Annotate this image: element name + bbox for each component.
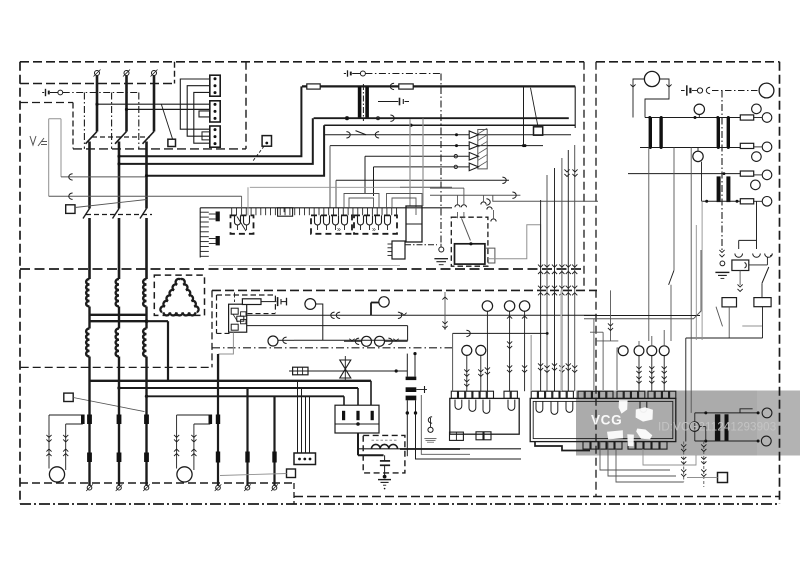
node circle at G1: [58, 90, 63, 95]
ground lead with node x441: [439, 244, 444, 252]
wire R8 down: [762, 307, 764, 338]
terminal block XT1: [210, 75, 220, 96]
inner dashed box of regulator: [217, 295, 276, 333]
crossing mark riser 3 at bus-section: [552, 286, 557, 296]
secondary outgoing terminal 2: [244, 484, 251, 491]
transformer T1 secondary winding L3: [143, 329, 146, 357]
control riser wire 1: [540, 200, 542, 391]
meter circle P2: [759, 83, 774, 98]
contact K1c: [491, 210, 496, 222]
comb connector X2: [388, 241, 406, 259]
incoming terminal L1: [94, 70, 101, 77]
motor branch M7 tap wire upper: [177, 414, 209, 416]
diode output wire: [487, 144, 525, 147]
contactor bank KM3 contacts: [354, 215, 397, 233]
capacitor stack C5: [406, 352, 427, 415]
secondary outgoing terminal 3: [271, 484, 278, 491]
long wire x702: [701, 201, 703, 340]
capacitor stack C5 lower leads: [407, 413, 521, 459]
panel wire row 3: [365, 155, 469, 158]
PLC box A2 body: [450, 398, 519, 434]
control row 2 of AVR: [247, 325, 408, 327]
signal tag box S5: [534, 127, 543, 135]
circuit breaker QF3 blade: [143, 132, 155, 144]
bus A drop to filter: [370, 381, 372, 405]
outer frame right border: [779, 62, 781, 504]
disconnector arrows x704: [701, 441, 706, 487]
PLC box A2 bottom pins: [450, 432, 492, 441]
motor branch M6 drop wire 1: [46, 415, 51, 461]
watermark gray band: [576, 391, 800, 456]
motor branch M6 tap wire upper: [49, 414, 81, 416]
contact at M3: [278, 337, 294, 343]
corner of feeder going down: [574, 86, 576, 128]
outgoing terminal 1: [86, 484, 93, 491]
dashed shelf line of control section: [21, 366, 212, 368]
dashed bottom of breaker compartment: [73, 148, 246, 150]
CT row 3 wire: [628, 172, 740, 175]
gray wire from S7: [220, 474, 287, 476]
diode D1: [469, 131, 478, 139]
T6 center tap: [699, 427, 705, 441]
crossing mark riser 2 at section line: [544, 265, 549, 274]
diode D2: [469, 142, 478, 150]
PLC box A3 bottom pins: [583, 442, 667, 450]
signal link wire from S3: [75, 200, 147, 208]
row into A2 contact: [453, 330, 549, 336]
LV feeder 1 lower: [88, 381, 90, 485]
aux box B9: [722, 298, 737, 307]
resistor R7: [740, 199, 753, 204]
terminal block XT2: [210, 101, 220, 122]
control riser wire 5: [567, 150, 569, 391]
wire to S8: [687, 477, 718, 479]
wire from P8 down: [701, 162, 703, 202]
transformer T2 core dash-dot: [362, 84, 364, 121]
arrow pair on riser 3: [552, 363, 557, 370]
feeder conductor L3 mid: [145, 142, 148, 209]
contacts around M4 M5: [344, 338, 408, 344]
interface box X1: [406, 206, 422, 242]
fuse bar on feeder 1: [87, 453, 92, 463]
crossing mark riser 6 at bus-section: [572, 286, 577, 296]
CT row 1 wire: [645, 116, 740, 119]
node circle on bottom lead: [345, 117, 348, 120]
arrow pair on riser 2: [544, 365, 549, 372]
surge arrester F1 bowtie: [340, 356, 351, 382]
gray riser wide b: [560, 290, 562, 391]
dashed separator of incomer box: [20, 62, 175, 84]
T6 disconnect hook: [740, 409, 753, 413]
aux box on bus: [278, 208, 293, 216]
regulator feed capacitor C3: [261, 297, 287, 306]
reactor core dashes: [372, 439, 398, 441]
instrument M5: [375, 336, 385, 346]
contact mark on feeder: [390, 83, 394, 89]
gray feeder bus y187: [250, 186, 400, 188]
contactor bank KM2 contacts: [311, 215, 352, 233]
signal box S8: [718, 473, 728, 483]
outer frame bottom dash-dot border: [20, 503, 780, 505]
panel wire row 6: [400, 186, 452, 188]
arrow pair on riser 4: [559, 365, 564, 372]
feeder conductor L2 to star point: [118, 307, 120, 315]
distribution loop wire W3: [145, 125, 324, 177]
secondary conductor L1: [88, 357, 90, 382]
relay K1 coil box: [455, 242, 485, 264]
feeder conductor L2 mid: [118, 142, 121, 209]
ground symbol right axis: [715, 272, 729, 278]
meter circle P13: [761, 436, 771, 446]
filter reactor L1: [372, 444, 398, 448]
gray output of A1: [219, 332, 234, 381]
motor branch M7 drop wire 2: [191, 424, 196, 463]
incoming terminal L3: [151, 70, 158, 77]
dashed step joining bottom borders: [293, 483, 295, 504]
circuit breaker QF2 blade: [115, 132, 127, 144]
battery symbol G2: [681, 85, 690, 95]
signal box S6: [64, 393, 73, 401]
long wire x648: [648, 148, 650, 342]
dashed left edge of control section: [211, 290, 213, 367]
panel wire row 2: [330, 144, 543, 208]
transformer T1 primary winding L3: [143, 279, 146, 307]
dash-dot lower rail of control section: [212, 347, 452, 349]
delta feeder tap wire: [147, 321, 169, 381]
meter circle P4: [752, 104, 762, 114]
ground symbol under x441: [434, 259, 448, 265]
inner dashed bottom line: [294, 496, 780, 498]
harmonic filter box with bars: [335, 405, 379, 433]
row wire y341: [596, 340, 618, 342]
relay K1 switch blade: [458, 212, 471, 240]
feeder arch to KM3: [387, 194, 423, 216]
connector contact bar B2: [216, 236, 220, 245]
contactor bank KM1 contacts: [231, 215, 254, 233]
meter circle P9: [754, 170, 772, 180]
outer case of A2: [421, 395, 470, 454]
meter circle P7: [752, 152, 762, 162]
terminal wiring loop C: [194, 92, 210, 143]
feeders into M14-16: [639, 330, 664, 346]
remote signal box S3: [66, 205, 75, 214]
contact pair K1b: [481, 195, 492, 209]
control panel upper rail: [324, 124, 575, 127]
meter circle P12: [762, 408, 772, 418]
wire K2 to blade: [749, 257, 768, 265]
connector bar links: [209, 214, 216, 244]
PLC box A2 top pins: [451, 391, 517, 398]
arrow pair on riser 5: [566, 363, 571, 370]
feeder conductor L2 lower: [118, 218, 121, 279]
motor branch M7 contact bar: [209, 415, 213, 425]
filter capacitor C4: [380, 455, 390, 475]
outer dash-dot frame left border: [19, 62, 21, 504]
vertical sense wire x523: [523, 86, 525, 145]
meter circle P6: [754, 142, 772, 152]
resistor R5: [740, 143, 753, 148]
dash-dot vertical fence 2 of breaker bay: [111, 93, 113, 149]
long wire x672 with blade: [669, 148, 674, 342]
transformer T2 primary bar: [358, 86, 362, 118]
relay K1 output loop: [485, 248, 495, 263]
terminal feeder wire 1: [199, 111, 210, 117]
stepped wire under A3: [535, 442, 590, 451]
control riser wire 3: [554, 168, 556, 391]
disconnect switch QS3 blade: [140, 209, 147, 219]
arrow pair on riser 1: [538, 363, 543, 370]
regulator element box A1: [229, 304, 247, 332]
wire B9 down: [728, 307, 730, 338]
dash-dot measuring axis x441: [440, 74, 442, 244]
instrument M15: [647, 346, 657, 356]
dashed interlock link of breakers: [86, 214, 152, 216]
head bar of T1 secondary: [89, 320, 148, 322]
P1 right lead: [645, 79, 672, 118]
crossing mark riser 2 at bus-section: [544, 286, 549, 296]
nested wire c bottom right: [616, 449, 684, 482]
resistor R8: [754, 298, 771, 307]
contact mark on bottom lead: [390, 115, 394, 121]
contact bar on secondary feeder 1: [216, 415, 220, 425]
dashed box around converter: [20, 103, 73, 149]
disconnect switch QS1 blade: [83, 209, 90, 219]
dashed enclosure of control section: [212, 289, 597, 291]
panel switch row 1: [324, 131, 571, 138]
filter feed line: [359, 448, 521, 450]
svg-text:»: »: [372, 227, 376, 234]
secondary feeder 2: [246, 388, 248, 485]
contact bar on feeder 2: [117, 415, 122, 425]
wire under K2: [738, 271, 743, 292]
dash-dot link X2 to ground: [405, 244, 437, 246]
feeder conductor L1 lower: [88, 218, 91, 279]
motor branch M6 drop wire 2: [63, 424, 68, 463]
meter circle P5: [754, 113, 772, 123]
instrument M1: [305, 299, 316, 310]
tag link diagonal: [531, 88, 539, 127]
control feed row y371: [289, 370, 407, 372]
feeder arch to KM2: [344, 194, 379, 208]
secondary feeder 3: [273, 396, 275, 485]
long dashed bus-section line: [20, 268, 584, 270]
ground symbol of filter: [378, 480, 391, 490]
instrument M8: [462, 345, 472, 355]
terminal wiring loop B: [187, 86, 210, 137]
distribution loop wire W1: [117, 86, 301, 157]
panel wire row 5: [336, 177, 509, 208]
T6 upper lead: [695, 411, 760, 414]
gray feeder to KM1: [241, 196, 243, 215]
instrument M14: [634, 346, 644, 356]
long wire x691: [690, 148, 692, 413]
converter box U0 outline: [49, 119, 61, 197]
PLC box A3 finger contacts: [536, 401, 647, 414]
fuse bar on secondary feeder 1: [216, 452, 220, 463]
LV feeder 3 lower: [145, 381, 147, 485]
outgoing terminal 3: [143, 484, 150, 491]
transformer T2 secondary bar: [365, 86, 369, 118]
drop wires left of panel: [594, 290, 613, 390]
instrument M13: [618, 346, 628, 356]
mechanical linkage dashes from S2: [253, 146, 265, 161]
T6 lower lead: [695, 440, 760, 443]
dash-dot pilot to meter circle: [712, 90, 758, 92]
motor branch M6 tap wire lower: [66, 423, 83, 425]
star-point bar of T1 primary: [89, 314, 148, 316]
contact bar on feeder 1: [87, 415, 92, 425]
control wire y195: [430, 192, 520, 198]
feeder conductor L1 to star point: [88, 307, 90, 315]
junction on y371: [395, 369, 398, 372]
control wire from converter upper: [61, 174, 147, 180]
control row 1 of AVR: [247, 312, 597, 318]
bus C drop to filter: [343, 396, 345, 405]
bus stub comb: [232, 208, 397, 215]
terminal wiring loop A: [180, 79, 210, 129]
wires down to XT4: [298, 381, 310, 453]
nested wire b bottom right: [608, 442, 676, 477]
circuit breaker QF1 blade: [86, 132, 98, 144]
wire drop x452: [452, 333, 454, 391]
control wire y201: [493, 195, 598, 201]
svg-text:VCG: VCG: [591, 413, 622, 428]
blade in right panel: [716, 307, 723, 327]
signal diagonal from S6: [73, 398, 144, 412]
node circle on right axis: [720, 261, 725, 266]
instrument M11: [504, 301, 514, 311]
gray riser bus b: [422, 119, 424, 207]
regulator feed resistor R3: [242, 299, 261, 305]
gray wire from ladder: [209, 265, 400, 267]
disconnect switch QS2 blade: [113, 209, 120, 219]
feeder conductor L3 lower: [145, 218, 148, 279]
watermark VCG logo flake: [607, 400, 653, 446]
diode D4: [469, 163, 478, 171]
nested wire a bottom right: [600, 442, 670, 471]
crossing mark riser 4 at bus-section: [559, 286, 564, 296]
dash-dot vertical fence 1 of breaker bay: [83, 93, 85, 149]
phase bus tap wire upper: [95, 103, 209, 106]
arrow on right axis: [719, 250, 724, 257]
PLC box A3 top pins: [531, 391, 676, 398]
bank KM1 blade: [237, 217, 246, 232]
wire M15 down: [649, 356, 654, 392]
contact bar on feeder 3: [144, 415, 149, 425]
motor branch M7 motor M: [177, 467, 192, 482]
arrow pair on riser 6: [572, 365, 577, 372]
switch blade SA1: [762, 267, 769, 298]
relay box K2: [732, 260, 749, 271]
wires M8 M9 down: [464, 355, 483, 391]
control riser wire 6: [574, 145, 576, 391]
junction at C4 ground: [383, 475, 387, 479]
meter P8 under row2: [693, 148, 703, 162]
instrument M2: [379, 297, 389, 307]
auxiliary relay box S2: [262, 136, 271, 147]
transformer T1 secondary winding L2: [116, 329, 119, 357]
crossing mark riser 1 at bus-section: [538, 286, 543, 296]
thick link under reactor: [358, 454, 384, 456]
panel wire row 4: [374, 165, 470, 168]
panel wire row 4 drop: [373, 167, 375, 196]
meter circle P10: [751, 180, 761, 190]
contact after G2: [706, 87, 710, 93]
CT pair T3 bars: [649, 118, 663, 148]
junction node on phase L3 tap: [145, 319, 149, 323]
series resistor R1 on feeder: [307, 84, 320, 89]
thick neutral drop: [357, 433, 359, 455]
transformer T1 secondary winding L1: [86, 329, 89, 357]
diode D3: [469, 152, 478, 160]
T6 left loop: [690, 413, 700, 441]
wire M14 down: [636, 356, 641, 392]
feeder conductor L3 to star point: [145, 307, 147, 315]
gray feeder pair to KM1: [247, 187, 249, 215]
fuse box FU1: [293, 367, 308, 375]
terminal block XT3: [210, 126, 220, 147]
feeder conductor L3 upper: [153, 76, 156, 132]
dashed bottom edge of motor compartment: [20, 482, 294, 484]
incoming terminal L2: [123, 70, 130, 77]
grading capacitor C2: [378, 98, 409, 106]
meter P3 above row1: [694, 104, 704, 117]
contact hook c: [765, 254, 773, 258]
relay K1 wire to field: [488, 225, 541, 290]
nested wire d bottom right: [643, 449, 696, 465]
secondary feeder 1: [217, 354, 219, 485]
aux transformer T6 bars: [715, 414, 729, 440]
dashed vertical right edge of main box: [583, 62, 585, 290]
crossing mark riser 5 at bus-section: [566, 286, 571, 296]
crossing mark riser 3 at section line: [552, 265, 557, 274]
diode stack D1-D4 hatch box: [478, 128, 487, 169]
PLC box A3 body: [530, 398, 676, 441]
svg-text:»: »: [337, 227, 341, 234]
feeder arch to KM2 inner: [349, 198, 374, 208]
contact hook b: [753, 254, 761, 258]
dashed separator after terminal blocks: [245, 62, 247, 149]
left entry rail: [442, 292, 447, 330]
CT row 2 wire: [640, 146, 740, 149]
meter P1: [644, 71, 659, 86]
control wire from converter lower: [49, 193, 242, 199]
bus B drop to filter: [357, 388, 359, 405]
motor branch M6 motor M: [49, 467, 64, 482]
gray riser wide a: [530, 335, 532, 391]
interposing relay dashed box K1: [451, 217, 488, 266]
crossing mark riser 5 at section line: [566, 265, 571, 274]
dash-dot pilot wire to the right: [365, 73, 441, 75]
crossing mark riser 6 at section line: [572, 265, 577, 274]
wire M11 down: [507, 311, 512, 391]
panel bottom rail 2: [584, 250, 701, 319]
wire cap to node circle: [352, 73, 360, 75]
dash-dot control wire from G1: [63, 92, 140, 94]
instrument M9: [476, 345, 486, 355]
node circle at T2 top: [360, 71, 365, 76]
LV bus B: [117, 386, 358, 389]
connector contact bar B1: [216, 212, 220, 222]
panel wire row 3 drop: [364, 156, 366, 193]
motor branch M7 motor leads: [177, 461, 194, 470]
PLC box A2 finger contacts: [455, 400, 515, 414]
svg-text:ID:VCG211241293903: ID:VCG211241293903: [658, 421, 776, 434]
wire M13 branch: [617, 348, 618, 390]
meter circle P11: [754, 197, 772, 207]
instrument M10: [482, 301, 492, 311]
resistor R6: [740, 171, 753, 176]
